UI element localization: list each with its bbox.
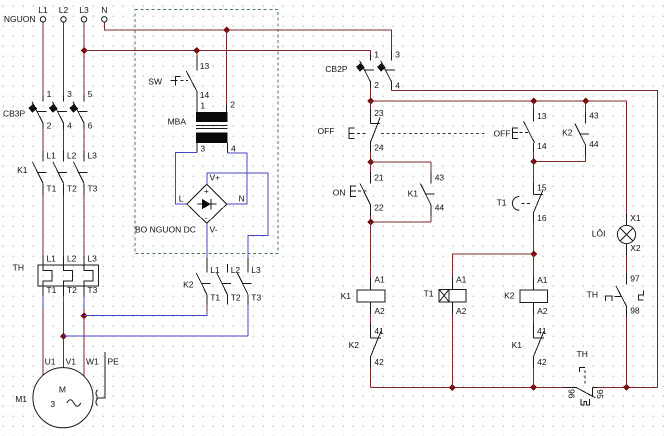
- svg-text:96: 96: [567, 389, 577, 399]
- node rail T1 coil: [449, 384, 456, 391]
- wire K1 to TH phase2: [63, 195, 65, 257]
- TH heater element 3: [84, 254, 98, 297]
- contact TH NC 95-96 rotated: [564, 368, 597, 405]
- wire CB3P to K1 phase1: [42, 129, 44, 151]
- svg-text:3: 3: [200, 143, 205, 153]
- svg-text:T1: T1: [46, 285, 56, 295]
- label K2 aux contact: [562, 127, 573, 137]
- wire K1 to TH phase3: [83, 195, 85, 257]
- node on N wire feeding MBA pin2: [223, 27, 230, 34]
- contactor K1 pole 2: [53, 151, 77, 195]
- TH heater element 1: [43, 254, 57, 297]
- wire MBA pin3 to bridge L: [176, 153, 197, 205]
- svg-text:K2: K2: [349, 340, 360, 350]
- svg-text:A2: A2: [456, 306, 467, 316]
- svg-text:N: N: [101, 5, 107, 15]
- svg-text:4: 4: [395, 80, 400, 90]
- label M1: [15, 394, 27, 404]
- svg-text:44: 44: [435, 203, 445, 213]
- svg-text:2: 2: [230, 100, 235, 110]
- svg-text:K1: K1: [512, 340, 523, 350]
- svg-text:44: 44: [589, 139, 599, 149]
- svg-text:V-: V-: [210, 224, 218, 234]
- svg-text:L1: L1: [38, 5, 48, 15]
- wire neutral return rail: [371, 386, 658, 388]
- svg-text:T1: T1: [46, 184, 56, 194]
- svg-text:NGUON: NGUON: [4, 14, 36, 24]
- label CB2P: [325, 64, 348, 74]
- terminal L1: [38, 5, 48, 22]
- lamp X1 fault indicator: [617, 213, 640, 273]
- coil K2: [504, 275, 548, 323]
- svg-text:14: 14: [200, 90, 210, 100]
- svg-text:T1: T1: [497, 198, 507, 208]
- svg-text:BO NGUON DC: BO NGUON DC: [135, 225, 196, 235]
- contact K1 NC 41-42: [534, 323, 547, 387]
- svg-text:K2: K2: [183, 280, 194, 290]
- svg-text:98: 98: [630, 306, 640, 316]
- svg-text:3: 3: [50, 399, 55, 409]
- svg-text:L2: L2: [59, 5, 69, 15]
- node DC brake tap on W1: [81, 312, 88, 319]
- wire K1 aux 44 return: [371, 221, 431, 223]
- svg-text:X2: X2: [630, 243, 641, 253]
- label ON button: [333, 187, 346, 197]
- svg-text:M1: M1: [15, 394, 27, 404]
- contactor K1 pole 1: [32, 151, 56, 195]
- label MBA: [168, 116, 187, 126]
- breaker CB3P pole 1: [28, 89, 51, 131]
- mechanical link OFF1-OFF2: [381, 132, 488, 134]
- wire L3 to CB3P: [83, 22, 85, 95]
- wire TH to motor U1: [42, 296, 44, 375]
- svg-text:A2: A2: [374, 306, 385, 316]
- svg-text:L2: L2: [231, 265, 241, 275]
- svg-text:TH: TH: [13, 263, 24, 273]
- svg-text:OFF: OFF: [494, 128, 511, 138]
- svg-text:T3: T3: [87, 285, 97, 295]
- wire control hot rail: [371, 101, 627, 214]
- wire K2 T1 down: [206, 305, 208, 312]
- wire DC V+ injection to V1: [64, 335, 248, 337]
- wire L1 to CB3P: [42, 22, 44, 95]
- label SW: [148, 77, 162, 87]
- pushbutton OFF1: [349, 101, 384, 162]
- svg-text:TH: TH: [577, 349, 588, 359]
- svg-text:L1: L1: [210, 265, 220, 275]
- wire TH to motor W1: [83, 296, 85, 376]
- svg-text:PE: PE: [108, 357, 120, 367]
- wire bridge V- to K2 pole1: [206, 223, 208, 258]
- svg-text:2: 2: [47, 121, 52, 131]
- contact K1 aux 43-44: [420, 172, 444, 222]
- svg-text:95: 95: [595, 389, 605, 399]
- contact T1 timed 15-16: [512, 162, 546, 255]
- breaker CB3P pole 2: [49, 89, 72, 131]
- wire down to K1 coil: [370, 222, 372, 278]
- wire CB3P to K1 phase2: [63, 129, 65, 151]
- svg-text:13: 13: [200, 61, 210, 71]
- svg-text:13: 13: [537, 111, 547, 121]
- label TH trip contact 95-96: [567, 389, 605, 399]
- svg-text:K1: K1: [408, 189, 419, 199]
- svg-text:K1: K1: [17, 165, 28, 175]
- transformer MBA: [196, 98, 236, 153]
- wire down to K2 coil: [533, 254, 535, 278]
- svg-text:T2: T2: [231, 292, 241, 302]
- svg-text:1: 1: [47, 89, 52, 99]
- node hot rail at K2 aux: [582, 98, 589, 105]
- svg-text:A2: A2: [537, 306, 548, 316]
- terminal L2: [59, 5, 69, 22]
- svg-text:6: 6: [88, 121, 93, 131]
- svg-text:T2: T2: [67, 184, 77, 194]
- svg-text:A1: A1: [456, 275, 467, 285]
- svg-text:16: 16: [537, 213, 547, 223]
- label OFF button 1: [318, 126, 335, 136]
- node T1 coil branch: [530, 251, 537, 258]
- svg-text:42: 42: [537, 357, 547, 367]
- svg-text:L3: L3: [79, 5, 89, 15]
- contactor K2 pole 1: [196, 258, 220, 305]
- svg-text:T2: T2: [67, 285, 77, 295]
- pushbutton ON: [351, 162, 384, 222]
- svg-text:42: 42: [374, 357, 384, 367]
- svg-text:23: 23: [374, 108, 384, 118]
- contact K2 aux 43-44: [575, 101, 599, 162]
- label NGUON: [4, 14, 36, 24]
- wire L3 branch to CB2P pin1: [84, 51, 371, 55]
- wire TH to motor V1: [63, 296, 65, 368]
- svg-text:+: +: [204, 186, 209, 196]
- label TH aux contact: [587, 290, 598, 300]
- svg-text:V+: V+: [210, 172, 221, 182]
- svg-text:TH: TH: [587, 290, 598, 300]
- wire CB2P pin4 to right rail: [392, 91, 658, 388]
- svg-text:97: 97: [630, 274, 640, 284]
- svg-text:L3: L3: [87, 151, 97, 161]
- breaker CB2P pole 1: [356, 50, 379, 102]
- pushbutton OFF2: [513, 101, 547, 162]
- svg-text:K1: K1: [341, 291, 352, 301]
- label TH: [13, 263, 24, 273]
- wire K1 to TH phase1: [42, 195, 44, 257]
- svg-text:K2: K2: [504, 290, 515, 300]
- svg-text:22: 22: [374, 203, 384, 213]
- wire branch to T1 coil: [452, 254, 533, 278]
- motor M1: [33, 356, 99, 428]
- node rail lamp branch: [623, 384, 630, 391]
- dashed enclosure BO NGUON DC: [135, 10, 278, 254]
- svg-text:MBA: MBA: [168, 116, 187, 126]
- label BO NGUON DC: [135, 225, 196, 235]
- contactor K2 pole 3: [237, 258, 261, 305]
- svg-text:OFF: OFF: [318, 126, 335, 136]
- svg-text:U1: U1: [45, 356, 56, 366]
- svg-text:14: 14: [537, 141, 547, 151]
- wire SW feed: [196, 51, 198, 57]
- wire CB3P to K1 phase3: [83, 129, 85, 151]
- node DC brake tap on V1: [60, 333, 67, 340]
- svg-text:CB2P: CB2P: [325, 64, 348, 74]
- label K1 main contactor: [17, 165, 28, 175]
- contactor K2 pole 2: [217, 264, 241, 305]
- svg-text:ON: ON: [333, 187, 346, 197]
- TH heater element 2: [64, 254, 78, 297]
- svg-text:LÔI: LÔI: [592, 229, 606, 239]
- label CB3P: [3, 109, 26, 119]
- node hot rail at OFF2: [530, 98, 537, 105]
- svg-text:L2: L2: [67, 151, 77, 161]
- thermal overload TH box: [38, 265, 99, 286]
- svg-text:W1: W1: [86, 356, 99, 366]
- wire K2 aux 44 return: [534, 161, 586, 163]
- terminal L3: [79, 5, 89, 22]
- node K1 coil tap: [367, 219, 374, 226]
- switch SW: [171, 56, 210, 100]
- label LOI lamp: [592, 229, 606, 239]
- svg-text:3: 3: [395, 50, 400, 60]
- svg-text:L1: L1: [46, 151, 56, 161]
- svg-text:2: 2: [374, 80, 379, 90]
- label K1 aux contact: [408, 189, 419, 199]
- wire N to CB2P pin3: [104, 22, 391, 50]
- svg-text:T1: T1: [424, 289, 434, 299]
- rectifier bridge: [179, 172, 245, 234]
- node rail K2 coil: [530, 384, 537, 391]
- svg-text:A1: A1: [374, 275, 385, 285]
- node ON tap: [367, 159, 374, 166]
- svg-text:3: 3: [67, 89, 72, 99]
- svg-text:L: L: [179, 194, 184, 204]
- svg-text:K2: K2: [562, 127, 573, 137]
- node SW tap: [193, 47, 200, 54]
- coil T1 timer: [424, 275, 467, 388]
- svg-text:X1: X1: [630, 213, 641, 223]
- node on L3 wire: [81, 47, 88, 54]
- svg-text:5: 5: [88, 89, 93, 99]
- terminal N: [101, 5, 107, 22]
- breaker CB2P pole 2: [377, 50, 400, 91]
- node CB2P pin2: [367, 98, 374, 105]
- svg-text:24: 24: [374, 143, 384, 153]
- contact K2 NC 41-42: [371, 323, 385, 387]
- label K1 interlock: [512, 340, 523, 350]
- svg-text:15: 15: [537, 183, 547, 193]
- contact TH NO 97-98: [606, 273, 644, 387]
- svg-text:1: 1: [200, 100, 205, 110]
- svg-text:L3: L3: [87, 254, 97, 264]
- wire MBA pin2 from N wire: [226, 30, 228, 105]
- contactor K1 pole 3: [73, 151, 97, 195]
- svg-text:L1: L1: [46, 254, 56, 264]
- wire bridge V+ to K2 pole3: [207, 173, 268, 258]
- svg-text:V1: V1: [66, 356, 77, 366]
- svg-text:4: 4: [231, 143, 236, 153]
- svg-text:T3: T3: [251, 292, 261, 302]
- label TH thermal trip: [577, 349, 588, 359]
- svg-text:4: 4: [67, 121, 72, 131]
- wire K2 T3 down: [247, 305, 249, 337]
- label OFF button 2: [494, 128, 511, 138]
- svg-text:T1: T1: [210, 292, 220, 302]
- node T1 contact tap: [530, 158, 537, 165]
- coil K1: [341, 275, 385, 323]
- svg-text:-: -: [205, 213, 208, 223]
- svg-text:21: 21: [374, 173, 384, 183]
- svg-text:L3: L3: [251, 265, 261, 275]
- wire DC V- injection to W1: [84, 312, 207, 316]
- svg-text:T3: T3: [87, 184, 97, 194]
- label T1 timed contact: [497, 198, 507, 208]
- label K2 interlock: [349, 340, 360, 350]
- svg-text:N: N: [239, 194, 245, 204]
- svg-text:M: M: [59, 385, 66, 395]
- terminal PE: [96, 352, 119, 406]
- svg-text:A1: A1: [537, 275, 548, 285]
- wire MBA pin4 to bridge N: [227, 153, 247, 204]
- svg-text:43: 43: [435, 173, 445, 183]
- svg-text:43: 43: [589, 110, 599, 120]
- wire L2 to CB3P: [63, 22, 65, 95]
- svg-text:CB3P: CB3P: [3, 109, 26, 119]
- breaker CB3P pole 3: [69, 89, 92, 131]
- svg-text:L2: L2: [67, 254, 77, 264]
- wire to K1 aux 43: [371, 162, 431, 172]
- svg-text:1: 1: [374, 50, 379, 60]
- svg-text:SW: SW: [148, 77, 162, 87]
- label K2 brake contactor: [183, 280, 194, 290]
